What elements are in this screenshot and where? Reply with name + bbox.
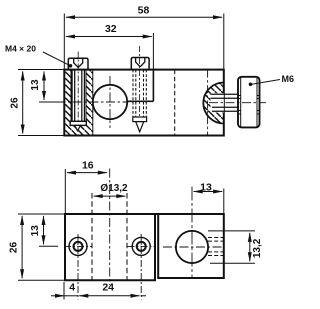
svg-text:Ø13,2: Ø13,2 <box>100 183 128 194</box>
hidden thread lines (block) <box>208 238 224 256</box>
svg-text:4: 4 <box>69 282 75 294</box>
bore centerline (bottom view) <box>109 169 111 286</box>
left screw centerline <box>77 52 79 129</box>
svg-text:32: 32 <box>105 23 117 35</box>
block bore centerlines <box>191 187 193 279</box>
slot bottom <box>71 122 86 124</box>
left screw cone tip <box>75 125 81 130</box>
dimension 16 <box>65 169 107 214</box>
hole 1 <box>69 237 87 255</box>
hidden bore lines (bottom view) <box>91 193 93 280</box>
left screw M4 head <box>68 58 88 69</box>
svg-text:16: 16 <box>82 160 94 172</box>
svg-text:58: 58 <box>138 5 150 17</box>
svg-text:13: 13 <box>200 181 212 193</box>
hatching left strip <box>64 70 71 136</box>
left screw end collar <box>70 121 86 125</box>
top edge across <box>65 213 224 215</box>
bore circle <box>93 85 127 119</box>
M6 axis centerline <box>209 102 266 104</box>
knurl ticks <box>238 95 241 97</box>
dimension 26 (bottom view) <box>18 214 65 280</box>
svg-text:13: 13 <box>30 225 41 237</box>
hidden edge line <box>174 70 176 136</box>
right screw cone tip <box>136 122 144 132</box>
body outline <box>64 70 224 136</box>
plate outline <box>65 214 155 280</box>
white band for screw shank <box>211 93 224 112</box>
svg-text:13,2: 13,2 <box>252 238 263 258</box>
right screw centerline <box>139 46 141 130</box>
svg-text:26: 26 <box>8 242 19 254</box>
dimension 13,2 <box>208 231 255 263</box>
dimension 13 (bottom view) <box>39 216 58 246</box>
dimension 13 (top view) <box>39 72 64 103</box>
right screw end collar <box>133 117 147 122</box>
block outline <box>158 214 224 278</box>
svg-text:24: 24 <box>102 282 114 294</box>
bore centerline horizontal <box>40 101 129 103</box>
dimension 58 <box>64 14 224 70</box>
dimension 13 (top right) <box>194 189 224 215</box>
dimension 32 <box>66 33 153 70</box>
svg-text:26: 26 <box>9 97 20 109</box>
centerline vertical right block <box>207 70 209 137</box>
bore centerline vertical <box>109 76 111 128</box>
right screw M4 head <box>131 58 149 70</box>
hatching bottom band <box>71 123 86 136</box>
M6 screw shank thread lines <box>211 94 239 111</box>
recess step <box>127 70 153 102</box>
hole 2 <box>132 237 150 255</box>
dimension Ø13,2 <box>94 195 126 197</box>
slot walls <box>71 70 93 136</box>
svg-text:M6: M6 <box>282 74 295 84</box>
dimension 26 (top view) <box>18 70 64 136</box>
svg-text:M4 × 20: M4 × 20 <box>5 44 36 54</box>
block bore circle <box>176 231 208 263</box>
M6 knob <box>238 77 260 128</box>
svg-text:13: 13 <box>30 79 41 91</box>
hatching mid strip <box>86 70 93 136</box>
dimension 4 and 24 <box>51 282 146 300</box>
M6 bore semicircle hatched <box>203 83 224 124</box>
right screw hidden shaft <box>133 70 146 117</box>
left screw shaft <box>72 70 84 121</box>
